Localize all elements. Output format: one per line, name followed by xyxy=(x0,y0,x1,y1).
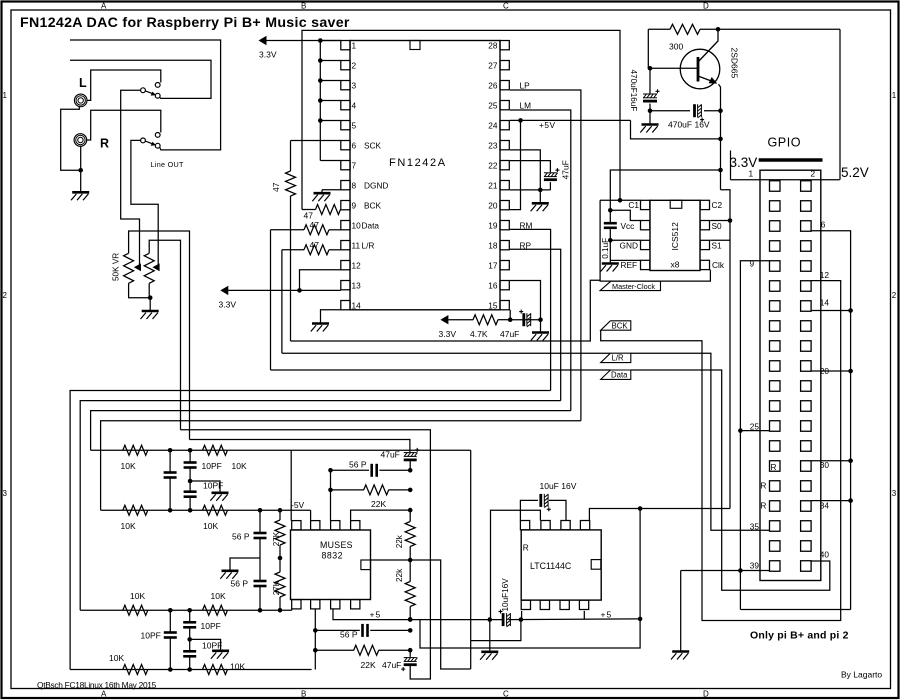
ground spur row4 xyxy=(190,639,221,650)
svg-text:D: D xyxy=(703,690,709,699)
capacitor 47uF output row1 xyxy=(404,452,417,454)
svg-text:A: A xyxy=(101,1,107,10)
wire pin24 dot to pin20 xyxy=(510,120,521,209)
wire pin8 DGND stub xyxy=(322,189,341,191)
wire pin30 xyxy=(811,460,851,462)
svg-text:10uF 16V: 10uF 16V xyxy=(540,481,577,491)
GPIO header body xyxy=(760,170,821,580)
svg-text:11: 11 xyxy=(352,240,361,250)
wire pin23 down xyxy=(510,150,540,190)
ground spur row1 xyxy=(190,481,220,493)
svg-text:10K: 10K xyxy=(109,653,124,663)
wire LP pin26 xyxy=(510,90,581,421)
svg-text:40: 40 xyxy=(820,550,830,560)
svg-text:GND: GND xyxy=(620,240,638,250)
bus pin stubs and junction dots xyxy=(320,40,341,42)
resistor R 10K row3 a xyxy=(123,605,148,615)
svg-text:Master-Clock: Master-Clock xyxy=(612,282,655,291)
resistor R 22K feedback top xyxy=(331,489,365,491)
svg-text:2: 2 xyxy=(352,60,357,70)
svg-text:FN1242A DAC for Raspberry Pi: FN1242A DAC for Raspberry Pi B+ Music sa… xyxy=(20,15,350,31)
svg-text:D: D xyxy=(703,1,709,10)
svg-text:10K: 10K xyxy=(130,591,145,601)
svg-text:30: 30 xyxy=(820,460,830,470)
wire pin21 row with dot xyxy=(510,189,550,191)
resistor R 47 (pin9 BCK) xyxy=(302,209,316,211)
svg-text:C2: C2 xyxy=(712,200,723,210)
svg-text:3: 3 xyxy=(352,80,357,90)
svg-text:10PF: 10PF xyxy=(202,461,222,471)
svg-text:16: 16 xyxy=(488,280,498,290)
svg-text:C: C xyxy=(503,690,509,699)
svg-text:3.3V: 3.3V xyxy=(219,300,237,310)
svg-text:+5V: +5V xyxy=(539,120,556,130)
ground pin21 row xyxy=(539,190,541,203)
ICS512 right pin squares xyxy=(700,200,709,209)
svg-text:MUSES: MUSES xyxy=(320,540,353,550)
svg-text:10K: 10K xyxy=(211,591,226,601)
svg-text:1: 1 xyxy=(352,40,357,50)
capacitor 10PF col b lower xyxy=(189,639,191,651)
svg-text:14: 14 xyxy=(352,300,362,310)
svg-text:39: 39 xyxy=(750,561,760,571)
wire collector node to 5.2V rail xyxy=(718,28,840,30)
ground DGND xyxy=(314,192,331,195)
svg-text:10K: 10K xyxy=(230,662,245,672)
wire +5 branch to pin24 wire xyxy=(631,120,721,138)
svg-text:22k: 22k xyxy=(395,568,404,582)
svg-text:10uF16V: 10uF16V xyxy=(501,578,510,612)
ground 47uF right xyxy=(540,320,542,333)
resistor R 47 (pin10 Data) xyxy=(271,229,305,231)
tag Master-Clock xyxy=(600,281,660,291)
transistor Q1 2SD665 xyxy=(680,49,720,89)
wire pin14 to ground xyxy=(321,310,341,324)
wire LM pin25 xyxy=(510,110,571,411)
svg-text:+5: +5 xyxy=(370,610,382,620)
wire pot tops to caps xyxy=(129,231,190,440)
ground pots xyxy=(142,310,159,313)
ground 470uF xyxy=(642,123,659,126)
wire 470uF 16V horizontal cap xyxy=(650,110,690,112)
svg-text:Line OUT: Line OUT xyxy=(151,160,184,169)
wire pin15 down xyxy=(509,310,511,320)
vertical net pin10 Data down xyxy=(270,230,272,370)
svg-text:Data: Data xyxy=(362,220,380,230)
filter row3 wire xyxy=(80,609,292,611)
svg-text:7: 7 xyxy=(352,160,357,170)
svg-text:3: 3 xyxy=(3,489,8,498)
emitter +5 net vertical with junctions xyxy=(720,111,722,190)
wire pin39 ground run xyxy=(681,570,770,572)
capacitor 470uF16uF vertical polarized xyxy=(643,93,657,95)
column 22k resistors xyxy=(408,468,413,473)
capacitor 0.1uF xyxy=(604,222,617,225)
svg-text:15: 15 xyxy=(488,300,498,310)
wire pinF column xyxy=(314,609,316,669)
tag BCK xyxy=(601,321,631,330)
svg-text:FN1242A: FN1242A xyxy=(389,157,447,169)
tag Data xyxy=(601,370,631,379)
svg-text:C: C xyxy=(503,1,509,10)
wire cap bottom junction xyxy=(648,108,653,113)
svg-text:GPIO: GPIO xyxy=(768,135,802,149)
svg-text:10K: 10K xyxy=(203,521,218,531)
svg-text:5: 5 xyxy=(352,120,357,130)
svg-text:A: A xyxy=(101,690,107,699)
wire +5V pin24 xyxy=(510,119,631,121)
svg-text:22k: 22k xyxy=(395,534,404,548)
svg-text:35: 35 xyxy=(750,522,760,532)
capacitor 10PF col b upper xyxy=(189,610,191,622)
svg-text:47uF: 47uF xyxy=(560,160,570,179)
wire pin9 gnd xyxy=(740,261,769,571)
IC U4 LTC1144C body xyxy=(521,530,601,600)
wire RP bundle xyxy=(80,401,561,611)
capacitor 10PF upper xyxy=(189,450,191,462)
wire +5 net to LTC pin8 top xyxy=(589,509,730,521)
svg-text:22K: 22K xyxy=(361,660,376,670)
svg-text:ICS512: ICS512 xyxy=(670,222,680,251)
svg-text:QtBsch FC18Linux 16th May 2015: QtBsch FC18Linux 16th May 2015 xyxy=(37,680,157,690)
wire L jack to switch xyxy=(87,70,161,100)
svg-text:47uF: 47uF xyxy=(382,660,401,670)
svg-text:L/R: L/R xyxy=(612,354,625,363)
svg-text:1: 1 xyxy=(749,169,754,179)
wire LTC pin4 step to +5 rail xyxy=(583,611,585,620)
svg-text:56 P: 56 P xyxy=(232,532,250,542)
svg-text:19: 19 xyxy=(488,220,498,230)
svg-text:14: 14 xyxy=(820,298,830,308)
bus vertical pins1-5 to pin7 xyxy=(319,41,321,161)
wire +5 bypass loop xyxy=(420,619,640,648)
svg-text:22K: 22K xyxy=(371,499,386,509)
svg-text:47uF: 47uF xyxy=(381,450,400,460)
wire pin20 gnd xyxy=(811,370,851,372)
resistor R 47 vertical (SCK) xyxy=(290,141,292,172)
wire cap jumper pin2 xyxy=(491,510,541,619)
svg-text:10K: 10K xyxy=(121,521,136,531)
wire S0 to +5 net xyxy=(710,220,730,222)
svg-text:10PF: 10PF xyxy=(201,621,221,631)
svg-text:24: 24 xyxy=(488,120,498,130)
emitter net jog down to S0/S1 xyxy=(721,190,731,509)
wire pinD stub xyxy=(351,510,411,520)
rail 0.1uF xyxy=(609,210,611,223)
wire GND pin xyxy=(610,239,640,241)
svg-text:C1: C1 xyxy=(628,200,639,210)
base rail down to cap xyxy=(648,29,650,68)
wire L lower throw to input stub xyxy=(70,60,211,98)
svg-text:R: R xyxy=(760,501,766,511)
svg-text:R: R xyxy=(760,481,766,491)
MUSES top pin squares xyxy=(292,521,301,530)
capacitor 56P feedback bottom xyxy=(315,629,360,631)
svg-text:L: L xyxy=(79,76,87,90)
svg-text:47: 47 xyxy=(271,182,281,192)
wire Data net from pin10 to GPIO pin40 xyxy=(271,369,611,371)
svg-text:10K: 10K xyxy=(232,461,247,471)
svg-text:26: 26 xyxy=(488,80,498,90)
wire pin14 gnd xyxy=(811,310,851,312)
tag L/R xyxy=(601,353,631,362)
svg-text:28: 28 xyxy=(488,40,498,50)
svg-text:10PF: 10PF xyxy=(202,641,222,651)
capacitor 56P upper xyxy=(259,510,261,533)
wire jack grounds xyxy=(61,107,81,171)
capacitor row1-row2 left xyxy=(169,450,171,472)
svg-text:47uF: 47uF xyxy=(500,329,519,339)
wire pins1-2 row xyxy=(731,179,840,181)
svg-text:8832: 8832 xyxy=(322,551,344,561)
svg-text:S0: S0 xyxy=(712,221,723,231)
svg-text:1: 1 xyxy=(892,91,897,100)
filter row2 wire -5V rail xyxy=(101,509,311,511)
wire pin16 to 47uF node xyxy=(510,281,541,320)
svg-text:R: R xyxy=(523,543,529,553)
ICS512 left pin squares xyxy=(641,200,650,209)
resistor R 300 xyxy=(648,28,670,30)
potentiometer 50K VR left xyxy=(124,253,134,283)
svg-text:10K: 10K xyxy=(121,461,136,471)
svg-text:12: 12 xyxy=(352,260,362,270)
wire feedback node to pinC xyxy=(330,470,332,520)
wire MUSES output right pin xyxy=(371,560,471,669)
svg-text:47: 47 xyxy=(304,211,314,221)
FN1242A right pin squares xyxy=(500,41,509,50)
svg-text:27K: 27K xyxy=(272,531,281,546)
svg-text:18: 18 xyxy=(488,240,498,250)
ground 10uF16V xyxy=(489,620,491,652)
master clock wire to SCK resistor xyxy=(291,280,601,341)
potentiometer 50K VR right xyxy=(144,253,154,283)
svg-text:LM: LM xyxy=(520,100,532,110)
capacitor 10uF16V bottom xyxy=(488,617,493,622)
jack L RCA xyxy=(74,94,87,107)
wire +5 branch to ICS512 Vcc xyxy=(610,170,720,210)
wire L/R vertical to pin35 xyxy=(631,353,770,530)
wire C1-Clk loop xyxy=(600,200,710,281)
wire C1 to rail xyxy=(600,199,640,201)
capacitor 56P lower xyxy=(259,558,261,581)
wire +5 rail MUSES xyxy=(333,609,503,619)
wire Data vertical to pin40 xyxy=(631,370,830,590)
svg-text:S1: S1 xyxy=(712,240,723,250)
wire row1 to MUSES pinA xyxy=(290,450,292,520)
filter row4 wire xyxy=(70,669,312,671)
switch SW1 L xyxy=(141,88,146,93)
capacitor 10uF 16V top xyxy=(520,500,538,520)
wire pot2 line to output cap row4 xyxy=(181,430,431,669)
svg-text:2: 2 xyxy=(3,291,8,300)
MUSES bottom pin squares xyxy=(292,600,301,609)
svg-text:47: 47 xyxy=(310,240,320,250)
capacitor 47uF (pins 21-23) xyxy=(544,172,557,174)
wire row3 to pinE xyxy=(291,609,293,611)
FN1242A box wire to master clock (pin9 BCK route) xyxy=(302,30,620,209)
wire Vcc step xyxy=(610,210,640,220)
svg-text:x8: x8 xyxy=(671,260,680,270)
svg-text:0.1uF: 0.1uF xyxy=(601,238,610,259)
svg-text:+5: +5 xyxy=(601,610,613,620)
svg-text:3: 3 xyxy=(892,489,897,498)
power arrow 3.3V top xyxy=(259,36,267,45)
resistor R 10K row1 a xyxy=(123,445,148,455)
ground ICS512 xyxy=(602,262,619,265)
svg-text:BCK: BCK xyxy=(612,321,629,330)
GPIO pin squares xyxy=(770,181,781,192)
wire pot1 line to output cap row1 xyxy=(190,440,410,453)
svg-text:10: 10 xyxy=(352,220,362,230)
svg-text:LP: LP xyxy=(520,80,531,90)
wire pin22 to 47uF cap xyxy=(510,161,550,173)
wire REF pin xyxy=(610,259,640,261)
svg-text:4.7K: 4.7K xyxy=(470,329,488,339)
wire pin6 SCK to 47 ohm resistor xyxy=(291,140,341,142)
svg-text:BCK: BCK xyxy=(364,200,382,210)
vertical net pin11 L/R down xyxy=(281,250,283,353)
svg-text:Clk: Clk xyxy=(712,260,725,270)
svg-text:470uF 16V: 470uF 16V xyxy=(668,120,710,130)
resistor 27K lower xyxy=(279,558,281,572)
resistor R 10K row4 a xyxy=(123,665,148,675)
svg-text:3.3V: 3.3V xyxy=(439,329,457,339)
capacitor 47uF polarized (pin15) xyxy=(522,313,525,326)
svg-text:B: B xyxy=(301,690,306,699)
wire 47uF row xyxy=(510,319,540,321)
wire +5 down from dot xyxy=(639,509,641,619)
svg-text:56 P: 56 P xyxy=(349,460,367,470)
svg-text:REF: REF xyxy=(621,260,638,270)
wire 3.3V feed to pins 1-5 bus xyxy=(261,40,341,42)
svg-text:4: 4 xyxy=(352,100,357,110)
FN1242A left pin squares xyxy=(341,41,350,50)
LTC right pin notch xyxy=(591,560,601,570)
resistor R 10K row2 a xyxy=(123,505,148,515)
wire pin13 3.3V xyxy=(228,289,340,291)
3.3V thick bar xyxy=(759,158,823,161)
IC U3 MUSES 8832 body xyxy=(291,530,371,600)
wire pin12 to 3.3V net xyxy=(300,270,341,291)
svg-text:17: 17 xyxy=(488,260,498,270)
wire row2 to MUSES pinB xyxy=(310,510,312,520)
capacitor 56P feedback top xyxy=(331,469,370,471)
svg-text:10PF: 10PF xyxy=(141,631,161,641)
wire pin34 xyxy=(811,500,851,502)
jack R RCA xyxy=(74,134,87,147)
ground jacks xyxy=(72,191,89,194)
resistor R 10K row1 b xyxy=(203,445,228,455)
MUSES right pin notch xyxy=(361,560,371,570)
svg-text:23: 23 xyxy=(488,140,498,150)
svg-text:2: 2 xyxy=(811,169,816,179)
svg-text:25: 25 xyxy=(488,100,498,110)
svg-text:Only pi B+ and pi 2: Only pi B+ and pi 2 xyxy=(750,630,849,642)
capacitor row3-4 left 10PF xyxy=(169,610,171,632)
capacitor 10PF lower xyxy=(189,481,191,492)
svg-text:470uF16uF: 470uF16uF xyxy=(629,70,638,112)
wire row1 extension hookup xyxy=(470,450,472,669)
svg-text:3.3V: 3.3V xyxy=(259,50,277,60)
svg-text:27: 27 xyxy=(488,60,498,70)
wire pin6 gnd xyxy=(811,231,851,610)
ground GPIO xyxy=(680,571,682,652)
3.3V supply drop xyxy=(730,151,732,180)
svg-text:20: 20 xyxy=(488,200,498,210)
wire 47uF row4 to pot2 line xyxy=(410,665,430,679)
gnd rails join xyxy=(740,609,850,611)
LTC bottom pin squares xyxy=(521,600,530,609)
IC U2 ICS512 body xyxy=(650,200,700,270)
filter row1 wire xyxy=(91,449,471,451)
svg-text:56 P: 56 P xyxy=(340,630,358,640)
svg-text:-5V: -5V xyxy=(291,500,305,510)
svg-text:27K: 27K xyxy=(272,580,281,595)
svg-text:9: 9 xyxy=(352,200,357,210)
wire BCK tag to GPIO pin12 xyxy=(601,281,841,621)
wire LTC pin1 bottom to cap rail xyxy=(521,611,523,620)
wire LM bundle xyxy=(91,411,571,451)
resistor R 22K feedback bottom xyxy=(315,649,354,651)
svg-text:56 P: 56 P xyxy=(231,579,249,589)
svg-text:5.2V: 5.2V xyxy=(841,165,869,180)
svg-text:B: B xyxy=(301,1,306,10)
wire pot bottoms to ground xyxy=(129,283,151,297)
svg-text:L/R: L/R xyxy=(362,240,375,250)
svg-text:R: R xyxy=(771,462,777,472)
power arrow 3.3V pin13 xyxy=(220,286,228,295)
wire RP pin18 xyxy=(510,249,561,400)
svg-text:8: 8 xyxy=(352,180,357,190)
resistor R 4.7K xyxy=(448,319,473,321)
resistor R 10K row3 b xyxy=(203,605,228,615)
5.2V rail from collector xyxy=(839,29,841,180)
svg-text:SCK: SCK xyxy=(364,140,382,150)
svg-text:2SD665: 2SD665 xyxy=(729,48,739,79)
svg-text:12: 12 xyxy=(820,270,830,280)
wire RM pin19 xyxy=(510,229,551,390)
svg-text:9: 9 xyxy=(750,259,755,269)
svg-text:47: 47 xyxy=(310,220,320,230)
wire LP bundle xyxy=(101,421,581,511)
svg-text:R: R xyxy=(100,137,109,151)
switch SW2 R xyxy=(141,138,146,143)
power arrow 3.3V pin15 row xyxy=(440,315,448,324)
ground pin14 xyxy=(312,322,329,325)
resistor R 47 (pin11 L/R) xyxy=(282,249,304,251)
wire R jack to switch xyxy=(87,110,161,140)
svg-text:13: 13 xyxy=(352,280,362,290)
svg-text:21: 21 xyxy=(488,180,498,190)
wire R lower throw to input stub xyxy=(70,40,221,150)
svg-text:Vcc: Vcc xyxy=(621,221,635,231)
svg-text:300: 300 xyxy=(669,42,683,52)
svg-text:1: 1 xyxy=(3,91,8,100)
capacitor 47uF output row4 xyxy=(409,650,411,657)
resistor R 10K row4 b xyxy=(203,665,228,675)
svg-text:DGND: DGND xyxy=(364,180,388,190)
wire pin25 gnd xyxy=(740,430,769,432)
resistor R 10K row2 b xyxy=(203,505,228,515)
ground mid xyxy=(230,558,260,571)
LTC top pin squares xyxy=(520,521,529,530)
IC U1 FN1242A body xyxy=(350,41,500,310)
capacitor 470uF 16V polarized horizontal xyxy=(693,104,696,117)
wire L common to pot xyxy=(121,90,141,263)
svg-text:22: 22 xyxy=(488,160,498,170)
svg-text:LTC1144C: LTC1144C xyxy=(530,561,572,571)
svg-text:50K VR: 50K VR xyxy=(112,253,121,281)
